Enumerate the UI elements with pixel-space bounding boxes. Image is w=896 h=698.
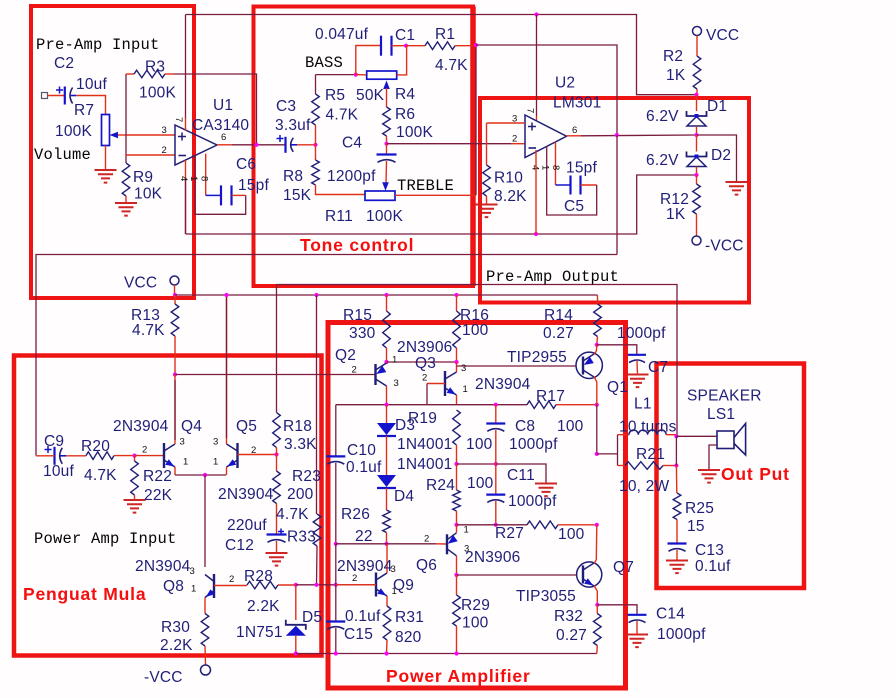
diode D4 1N4001	[377, 475, 396, 487]
node C1/R1 junction	[404, 44, 408, 48]
svg-text:220uf: 220uf	[227, 517, 267, 534]
node R16 top on VCC rail	[454, 293, 458, 297]
svg-text:R11: R11	[325, 208, 353, 225]
U1 output lead pin6	[217, 144, 232, 146]
svg-text:3.3uf: 3.3uf	[275, 117, 311, 134]
svg-text:15: 15	[687, 518, 705, 535]
svg-text:R29: R29	[461, 597, 490, 614]
svg-text:15pf: 15pf	[238, 177, 269, 194]
wire C14 to ground	[636, 621, 638, 635]
transistor Q4 2N3904	[163, 443, 165, 468]
section box Tone control right edge (thick)	[470, 7, 476, 287]
svg-text:C10: C10	[347, 442, 376, 459]
resistor R25 15	[673, 493, 681, 520]
wire R1 right lead	[455, 45, 476, 47]
svg-text:R8: R8	[283, 168, 303, 185]
node Q5 base junction	[274, 452, 278, 456]
wire C11 top lead	[495, 464, 497, 495]
svg-text:D4: D4	[394, 488, 414, 505]
wire Q6 collector down	[456, 556, 458, 575]
wire Q8 base to R28	[214, 585, 247, 587]
svg-text:330: 330	[349, 325, 376, 342]
wire R1 node to U2 output	[476, 45, 617, 135]
wire output feedback run	[277, 285, 678, 437]
svg-text:TIP2955: TIP2955	[507, 349, 567, 366]
svg-text:R7: R7	[74, 102, 94, 119]
op-amp U1 CA3140	[175, 125, 217, 165]
wire Q1 emitter up	[595, 345, 597, 351]
svg-text:1N4001: 1N4001	[397, 436, 453, 453]
svg-text:10, 2W: 10, 2W	[619, 478, 669, 495]
wire U1 output to C3	[232, 144, 285, 146]
R4 wiper arrow	[383, 81, 390, 90]
svg-text:Q8: Q8	[163, 578, 184, 595]
wire U2 pin2 lead	[511, 143, 525, 145]
wire output to R25	[675, 466, 677, 494]
svg-text:3: 3	[190, 566, 195, 577]
wire C5 to U2 pin1 loop	[547, 146, 597, 215]
svg-text:100: 100	[462, 615, 489, 632]
svg-text:4.7K: 4.7K	[276, 506, 309, 523]
svg-text:Power Amp Input: Power Amp Input	[34, 530, 177, 548]
wire common emitter to Q8 collector	[204, 475, 206, 567]
ground right of zeners	[726, 182, 748, 195]
svg-text:2: 2	[512, 134, 517, 145]
wire D2 bottom lead	[696, 167, 698, 176]
wire Q4 collector	[174, 375, 176, 445]
wire R27 right lead	[558, 524, 597, 526]
ground under C14	[626, 635, 648, 648]
wire R17 right lead	[556, 404, 597, 406]
resistor R3 100K	[134, 70, 165, 78]
ground under R9	[115, 203, 137, 216]
svg-text:3: 3	[213, 437, 218, 448]
wire C10 node to R26 node	[336, 543, 387, 545]
wire to L1 bracket	[597, 453, 618, 455]
wire rail to R15	[386, 295, 388, 311]
svg-text:R27: R27	[495, 525, 524, 542]
resistor R14 0.27	[594, 304, 602, 337]
wire VCC rail to R14	[597, 295, 599, 304]
svg-text:100: 100	[466, 436, 493, 453]
wire R19 node to C8 bottom	[457, 463, 496, 465]
svg-text:6.2V: 6.2V	[646, 108, 679, 125]
svg-text:2.2K: 2.2K	[247, 598, 280, 615]
wire R1 left lead	[406, 45, 425, 47]
transistor Q7 TIP3055	[577, 562, 602, 587]
node D2 bottom junction	[694, 173, 698, 177]
svg-text:3: 3	[512, 114, 517, 125]
node R6/C4 treble junction	[384, 142, 388, 146]
svg-text:LM301: LM301	[553, 95, 601, 112]
svg-text:2N3904: 2N3904	[475, 376, 531, 393]
resistor R19 100	[453, 410, 461, 445]
wire C5 right lead	[581, 184, 597, 186]
wire R23 top lead	[276, 455, 278, 472]
node R14/Q1 emitter/C7	[595, 343, 599, 347]
svg-text:2N3904: 2N3904	[135, 558, 191, 575]
node zener midpoint	[694, 133, 698, 137]
resistor R23 200	[273, 471, 281, 504]
svg-text:15pf: 15pf	[566, 160, 597, 177]
svg-text:R28: R28	[244, 568, 273, 585]
svg-text:R30: R30	[161, 619, 190, 636]
svg-text:C3: C3	[276, 98, 296, 115]
section box Penguat Mula	[14, 356, 322, 656]
svg-text:3: 3	[394, 378, 399, 389]
wire R4 right to C1 node	[397, 46, 407, 75]
svg-text:0.1uf: 0.1uf	[346, 459, 382, 476]
inductor L1 10 turns	[629, 430, 666, 435]
wire Q6 base lead	[436, 543, 447, 545]
capacitor C4 1200pf	[377, 153, 397, 155]
wire R10 to ground	[486, 196, 488, 204]
svg-text:TREBLE: TREBLE	[397, 177, 454, 195]
resistor R26 22	[383, 510, 391, 533]
capacitor C11 1000pf	[486, 494, 505, 496]
wire BASS node to R4 pot	[316, 74, 356, 76]
wire C9 to R20	[66, 455, 86, 457]
svg-text:2.2K: 2.2K	[160, 637, 193, 654]
ground under C12	[266, 553, 288, 566]
svg-text:4.7K: 4.7K	[326, 107, 359, 124]
svg-text:100K: 100K	[366, 208, 403, 225]
section box Power Amplifier	[328, 323, 626, 689]
wire input to C9	[36, 455, 55, 457]
node VCC rail left end	[173, 293, 177, 297]
node R15/Q2 emitter junction	[384, 360, 388, 364]
svg-text:100K: 100K	[139, 85, 176, 102]
wire R8 top lead	[315, 145, 317, 160]
node U1 output / R3 feedback junction	[254, 143, 258, 147]
resistor R27 100	[527, 521, 558, 529]
wire Q5 emitter down	[226, 467, 228, 475]
wire D2 top lead	[696, 135, 698, 152]
capacitor C14 1000pf	[628, 614, 647, 616]
speaker LS1	[717, 431, 734, 449]
transistor Q6 2N3906	[446, 534, 448, 554]
svg-text:6.2V: 6.2V	[646, 152, 679, 169]
wire down to R22	[134, 456, 136, 461]
wire Q3 emitter down	[456, 395, 458, 405]
capacitor C9 10uf	[53, 447, 55, 465]
wire U1 pin8 lead down	[205, 154, 207, 196]
wire R2 bottom lead	[696, 89, 698, 95]
wire R6 bottom lead	[386, 136, 388, 144]
svg-text:2: 2	[422, 373, 427, 384]
svg-text:2: 2	[352, 365, 357, 376]
wire R11 right to R1 output node	[475, 45, 477, 196]
wire to ground mid	[496, 464, 546, 484]
node D5 on bottom rail	[294, 651, 298, 655]
svg-text:LS1: LS1	[707, 406, 735, 423]
wire R14 bottom lead	[596, 337, 599, 345]
node R15 top on VCC rail	[384, 293, 388, 297]
wire U2 output to zener node	[581, 134, 697, 137]
wire R24 top lead	[456, 464, 458, 490]
wire R29 top lead	[456, 575, 458, 595]
wire bias node run	[296, 584, 376, 586]
svg-text:1000pf: 1000pf	[617, 325, 666, 342]
svg-text:8: 8	[199, 176, 210, 181]
port -VCC right	[692, 236, 701, 245]
wire Q3 base lead	[427, 383, 445, 385]
wire L1 right lead	[666, 434, 676, 436]
svg-text:0.27: 0.27	[556, 627, 587, 644]
wire zener midpoint to ground	[697, 135, 737, 182]
svg-text:2N3904: 2N3904	[218, 486, 274, 503]
svg-text:1N4001: 1N4001	[397, 456, 453, 473]
wire VCC rail to R33	[316, 295, 318, 514]
wire bottom negative rail	[296, 653, 597, 655]
svg-text:R33: R33	[287, 529, 316, 546]
zener diode D5 1N751	[286, 620, 306, 630]
svg-text:1: 1	[392, 355, 397, 366]
svg-text:100: 100	[467, 475, 494, 492]
wire output node vertical	[675, 436, 677, 465]
transistor Q2 2N3906	[374, 364, 376, 385]
svg-text:R21: R21	[636, 446, 665, 463]
node speaker output junction	[674, 434, 678, 438]
wire C12 to ground	[276, 541, 278, 553]
svg-text:1000pf: 1000pf	[509, 436, 558, 453]
node R31 bottom junction	[384, 651, 388, 655]
node C15 top junction	[334, 583, 338, 587]
svg-text:R20: R20	[81, 438, 110, 455]
ground speaker return	[698, 470, 720, 483]
transistor Q9 2N3904	[375, 573, 377, 597]
wire output to speaker	[676, 435, 717, 437]
wire feedback down to R18	[276, 285, 278, 413]
svg-text:1: 1	[191, 584, 196, 595]
node Q4 base junction	[132, 454, 136, 458]
wire R5 top to BASS node	[315, 75, 317, 94]
wire U2 pin7 lead	[536, 116, 538, 122]
wire R26 bottom lead	[386, 533, 388, 544]
svg-text:6: 6	[572, 125, 577, 136]
svg-text:Tone control: Tone control	[300, 235, 414, 255]
svg-text:C14: C14	[656, 606, 685, 623]
node Q5 collector on VCC rail	[224, 293, 228, 297]
wire to Q3 collector	[456, 362, 458, 372]
svg-text:R23: R23	[292, 468, 321, 485]
svg-text:R25: R25	[685, 500, 714, 517]
svg-text:-VCC: -VCC	[144, 669, 183, 686]
svg-text:7: 7	[525, 108, 536, 113]
svg-text:7: 7	[173, 117, 184, 122]
wire Q9 emitter to R31	[386, 596, 388, 606]
svg-text:Volume: Volume	[34, 146, 91, 164]
wire L1/R21 left bracket	[617, 435, 619, 466]
wire R23 to C12	[276, 504, 278, 535]
svg-text:8.2K: 8.2K	[494, 188, 527, 205]
resistor R1 4.7K	[425, 42, 455, 50]
transistor Q8 2N3904	[213, 574, 215, 598]
svg-text:15K: 15K	[283, 187, 312, 204]
svg-text:C6: C6	[236, 156, 256, 173]
wire R19 bottom lead	[456, 445, 458, 464]
wire Q7 collector up	[595, 525, 598, 560]
wire C10 bottom down	[335, 463, 337, 544]
svg-text:100: 100	[462, 322, 489, 339]
wire VCC rail	[175, 294, 598, 296]
resistor R24 100	[453, 490, 461, 511]
wire to C15	[335, 585, 337, 622]
svg-text:2N3906: 2N3906	[465, 549, 521, 566]
wire to Q6 base	[387, 543, 437, 545]
wire U1 pin7 lead	[185, 118, 187, 130]
svg-text:100: 100	[557, 418, 584, 435]
svg-text:-VCC: -VCC	[705, 238, 744, 255]
svg-text:4: 4	[530, 165, 541, 170]
wire D5 top lead	[295, 585, 297, 620]
wire C15 to bottom rail	[335, 628, 337, 654]
svg-text:VCC: VCC	[124, 275, 157, 292]
wire Q7 emitter down	[596, 591, 598, 605]
svg-text:1200pf: 1200pf	[327, 168, 376, 185]
node Q6 collector junction	[454, 573, 458, 577]
wire U1 pin8 to C6 left plate	[206, 194, 221, 196]
wire mid rail R27	[457, 524, 528, 526]
svg-text:0.047uf: 0.047uf	[315, 26, 369, 43]
svg-text:Q1: Q1	[607, 379, 628, 396]
wire R32 top lead	[596, 605, 598, 614]
svg-text:R32: R32	[554, 608, 583, 625]
svg-text:2N3904: 2N3904	[337, 558, 393, 575]
section box Speaker Output	[657, 364, 805, 589]
wire to Q4 base	[135, 455, 165, 457]
svg-text:22: 22	[355, 528, 373, 545]
svg-text:1: 1	[540, 165, 551, 170]
wire VCC port down	[174, 285, 176, 295]
ground under C7	[627, 375, 649, 388]
svg-text:C8: C8	[515, 418, 535, 435]
wire bias line (C10/R17 run)	[336, 404, 527, 406]
svg-text:4.7K: 4.7K	[435, 57, 468, 74]
wire U1 pin4 to negative rail	[185, 160, 187, 234]
wire R33 to bias node	[316, 546, 319, 585]
wire U1/U2 pin4 negative rail	[186, 175, 697, 234]
wire R31 bottom lead	[386, 640, 389, 654]
svg-text:U1: U1	[213, 97, 233, 114]
svg-text:R14: R14	[544, 307, 573, 324]
svg-text:1: 1	[213, 457, 218, 468]
wire C7 to ground	[636, 361, 639, 375]
resistor R12 1K	[693, 184, 701, 214]
wire R7 wiper to U1 pin3	[126, 134, 175, 136]
wire R16 bottom lead	[456, 348, 458, 362]
svg-text:R9: R9	[133, 169, 153, 186]
svg-text:3.3K: 3.3K	[284, 436, 317, 453]
node Q7 emitter junction	[595, 603, 599, 607]
resistor R31 820	[383, 606, 391, 640]
svg-text:22K: 22K	[144, 487, 173, 504]
svg-text:CA3140: CA3140	[192, 117, 249, 134]
svg-text:R3: R3	[145, 59, 165, 76]
svg-text:10uf: 10uf	[76, 76, 107, 93]
ground under C13	[666, 561, 688, 574]
svg-text:3: 3	[180, 437, 185, 448]
svg-text:Q2: Q2	[335, 347, 356, 364]
wire C8 top lead	[495, 405, 497, 424]
node U2 pin4 junction	[534, 232, 538, 236]
port VCC left	[170, 276, 179, 285]
port VCC right	[693, 27, 702, 36]
node D3 top junction	[384, 403, 388, 407]
svg-text:1N751: 1N751	[236, 624, 283, 641]
svg-text:1: 1	[463, 384, 468, 395]
potentiometer R4 50K bass	[367, 71, 397, 79]
wire Q1 collector down	[596, 382, 598, 405]
wire D5 bottom lead	[295, 636, 297, 654]
wire R3 feedback to U1 output	[174, 74, 257, 145]
wire R18 bottom lead	[276, 448, 278, 455]
node R17/Q1 collector junction	[595, 403, 599, 407]
svg-text:D5: D5	[302, 609, 322, 626]
node R13/Q4 collector junction	[173, 372, 177, 376]
wire C1 right lead	[392, 45, 407, 47]
node R16/Q3 collector junction	[454, 360, 458, 364]
resistor R20 4.7K	[86, 452, 114, 460]
capacitor C12 220uf	[267, 533, 287, 535]
wire R4 wiper to R6	[386, 88, 388, 107]
node R2 bottom junction	[694, 93, 698, 97]
resistor R15 330	[383, 311, 391, 348]
wire U2 pin8 to C5 left plate	[556, 184, 571, 186]
wire Q4 emitter down	[174, 467, 176, 475]
resistor R18 3.3K	[273, 413, 281, 448]
svg-text:1K: 1K	[666, 206, 686, 223]
svg-text:VCC: VCC	[706, 27, 739, 44]
section box Pre-Amp Input	[31, 6, 194, 298]
svg-text:2: 2	[162, 145, 167, 156]
svg-text:Pre-Amp Input: Pre-Amp Input	[36, 36, 160, 54]
svg-text:R15: R15	[343, 307, 372, 324]
svg-text:1000pf: 1000pf	[657, 626, 706, 643]
svg-text:10 turns: 10 turns	[619, 419, 677, 436]
wire U2 output down	[616, 135, 618, 255]
svg-text:R17: R17	[536, 388, 565, 405]
wire VCC to U1 pin7	[185, 15, 187, 119]
wire top VCC run	[186, 15, 697, 95]
capacitor C2 10uf	[64, 87, 66, 105]
ground under R10	[476, 205, 498, 218]
svg-text:2N3904: 2N3904	[113, 418, 169, 435]
zener diode D2 6.2V	[687, 152, 707, 157]
svg-text:D1: D1	[707, 98, 727, 115]
wire input pad to C2	[48, 95, 65, 97]
resistor R30 2.2K	[201, 614, 209, 647]
svg-text:C5: C5	[564, 198, 584, 215]
node R27/Q7 collector junction	[595, 523, 599, 527]
wire R2 to D1	[696, 95, 698, 111]
svg-text:820: 820	[395, 629, 422, 646]
wire R10 to U2 pin3	[487, 122, 526, 124]
wire C8 bottom lead	[495, 430, 497, 464]
wire R25 to C13	[676, 520, 678, 544]
svg-text:Pre-Amp Output: Pre-Amp Output	[486, 268, 619, 286]
wire D3 to D4	[386, 436, 388, 475]
svg-text:3: 3	[391, 564, 396, 575]
transistor Q5 2N3904	[236, 443, 238, 468]
wire R24 bottom lead	[456, 511, 458, 525]
wire Q4 collector to Q2 base	[175, 374, 376, 376]
wire R7 wiper	[118, 134, 126, 136]
node R28/D5 junction	[294, 583, 298, 587]
wire rail to R16	[456, 295, 458, 311]
capacitor C3 3.3uf	[284, 137, 286, 153]
svg-text:R18: R18	[283, 418, 312, 435]
